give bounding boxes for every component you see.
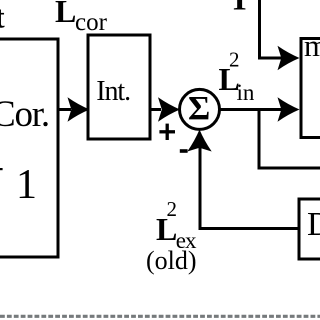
svg-text:m: m (304, 28, 320, 63)
svg-text:cor: cor (75, 9, 108, 36)
svg-text:T: T (229, 0, 250, 17)
svg-text:L: L (55, 0, 76, 29)
svg-text:D: D (307, 206, 320, 243)
svg-text:Cor.: Cor. (0, 94, 49, 135)
svg-text:2: 2 (167, 197, 178, 221)
svg-text:Int.: Int. (96, 76, 130, 107)
svg-text:Σ: Σ (188, 90, 210, 127)
svg-text:t: t (0, 0, 5, 35)
svg-text:2: 2 (229, 47, 240, 71)
svg-text:1: 1 (16, 162, 37, 208)
svg-text:(old): (old) (146, 246, 197, 275)
svg-text:in: in (237, 80, 255, 105)
